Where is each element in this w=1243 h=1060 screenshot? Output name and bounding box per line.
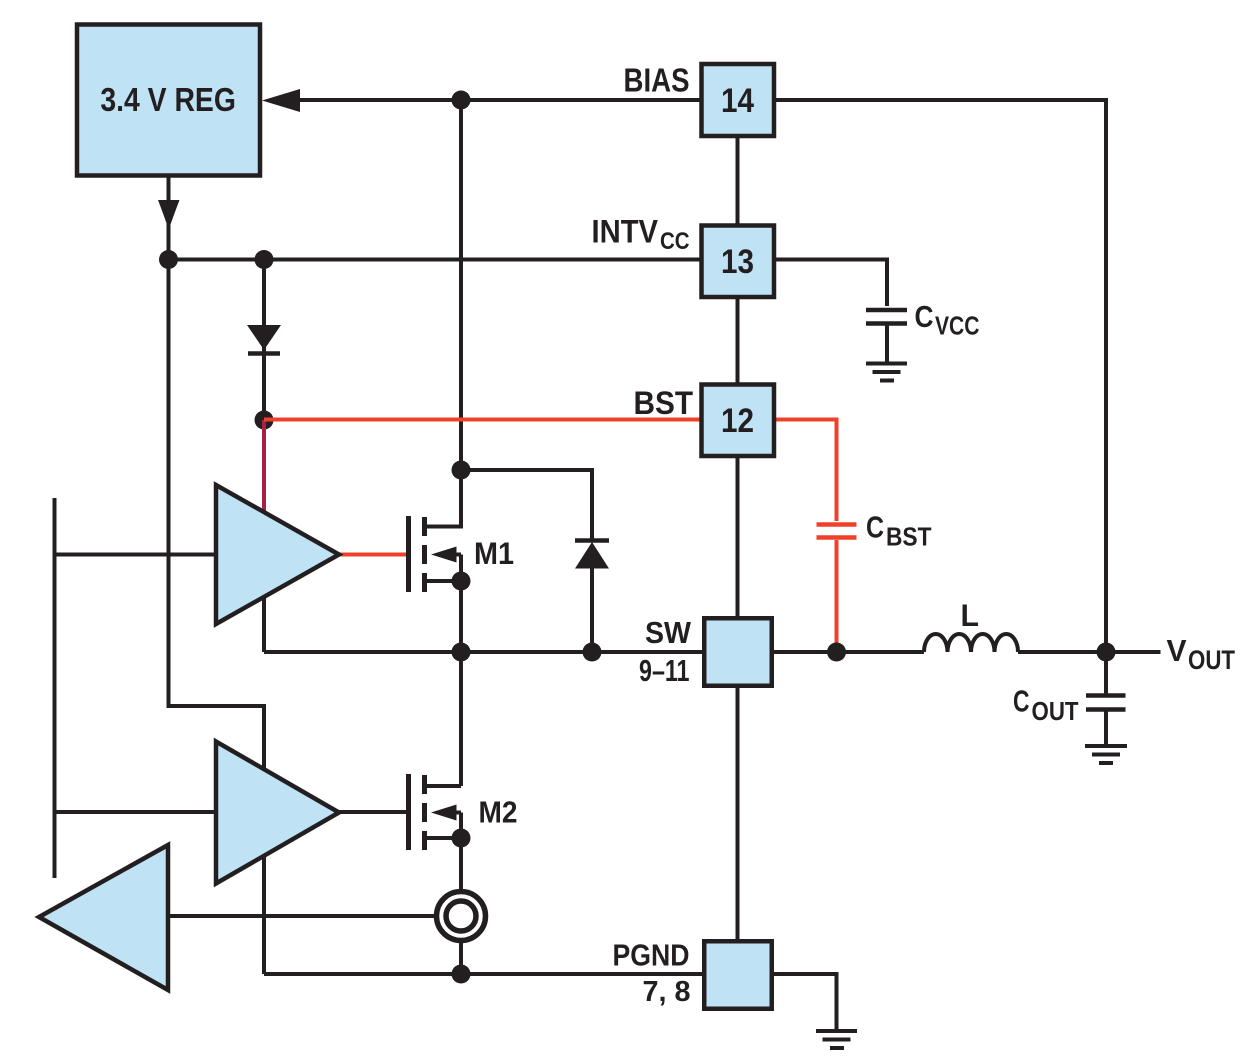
- wire M2 gate from driver T2: [339, 810, 409, 814]
- pin box PGND: [704, 941, 772, 1009]
- svg-text:M1: M1: [474, 535, 514, 571]
- wire SW rail down to M2 drain: [459, 652, 463, 786]
- transistor M1 source lead: [425, 579, 462, 583]
- svg-text:VCC: VCC: [935, 313, 980, 341]
- node dot PGND at sense: [452, 965, 471, 984]
- node dot M1 source: [452, 572, 471, 591]
- wire M1 drain loop to body diode: [461, 470, 592, 539]
- arrowhead downward below 3.4V REG: [158, 200, 180, 230]
- wire sense circle bottom to PGND line: [459, 941, 463, 974]
- wire COUT to ground: [1104, 712, 1108, 745]
- svg-text:INTV: INTV: [592, 214, 659, 250]
- transistor M2 gate bar: [406, 774, 411, 850]
- pin box 12: [702, 385, 775, 457]
- ground symbol PGND: [816, 1029, 857, 1033]
- body diode D1 of M1: [575, 538, 609, 543]
- arrowhead into 3.4 V REG box: [262, 89, 300, 112]
- wire red BST horizontal to pin 12: [264, 418, 701, 422]
- svg-text:7, 8: 7, 8: [643, 976, 691, 1008]
- capacitor CBST plates (red): [817, 522, 857, 527]
- svg-text:C: C: [915, 299, 934, 334]
- wire M1 source to SW line: [459, 581, 463, 652]
- wire red CBST bottom to SW node: [835, 540, 839, 652]
- transistor M2 source lead: [425, 836, 462, 840]
- svg-text:M2: M2: [479, 795, 518, 830]
- svg-text:3.4 V REG: 3.4 V REG: [100, 81, 236, 118]
- svg-text:13: 13: [721, 243, 754, 281]
- node dot VOUT: [1097, 643, 1116, 662]
- svg-text:OUT: OUT: [1188, 645, 1235, 675]
- pin box 14: [702, 64, 775, 136]
- wire inductor to VOUT: [1018, 650, 1161, 654]
- wire input to driver T1: [55, 553, 217, 557]
- wire sense circle left to T3: [168, 914, 436, 918]
- wire from driver T1 bottom to SW line: [262, 590, 266, 652]
- wire red right of pin 12 to CBST: [774, 420, 837, 522]
- node dot at diode branch on INTVCC: [255, 250, 274, 269]
- wire stub below 3.4V REG box: [167, 176, 171, 260]
- svg-text:BST: BST: [886, 522, 932, 552]
- node dot SW at body diode: [583, 643, 602, 662]
- node dot M1 drain rail: [452, 461, 471, 480]
- driver triangle T3 (left pointing): [39, 845, 168, 990]
- svg-text:9–11: 9–11: [639, 654, 690, 688]
- capacitor CVCC plates: [866, 308, 907, 313]
- current sense double circle: [437, 892, 486, 941]
- left bus vertical: [53, 498, 57, 878]
- wire SW horizontal left of SW box: [264, 650, 702, 654]
- wire vertical left rail from INTVCC node down to jog: [169, 260, 265, 975]
- driver triangle T1 (gate driver M1): [216, 485, 339, 624]
- transistor M1 drain lead: [425, 470, 462, 527]
- node dot INTVCC left: [159, 250, 178, 269]
- wire CVCC to ground: [885, 326, 889, 363]
- pin connector stub SW-PGND: [736, 688, 740, 939]
- transistor M1 gate bar: [406, 516, 411, 592]
- wire INTVCC horizontal to pin 13: [169, 258, 702, 262]
- wire SW right of box to inductor: [774, 650, 924, 654]
- pin connector stub 13-12: [736, 297, 740, 384]
- inductor L: [924, 634, 1018, 652]
- transistor M2 body arrow: [431, 805, 457, 821]
- svg-text:V: V: [1167, 633, 1187, 668]
- ground symbol COUT: [1085, 744, 1127, 748]
- svg-text:BIAS: BIAS: [624, 61, 690, 98]
- wire red M1 gate drive from T1 apex: [339, 553, 407, 557]
- node dot BST left: [255, 411, 274, 430]
- svg-text:CC: CC: [660, 228, 690, 255]
- wire PGND horizontal to PGND box: [264, 972, 702, 976]
- wire BIAS horizontal from 3.4V REG to pin 14 and right loop: [290, 98, 701, 102]
- svg-text:C: C: [1013, 684, 1030, 719]
- transistor M2 drain lead: [425, 784, 462, 788]
- wire BIAS right of pin 14 to right vertical: [774, 100, 1106, 652]
- node junction dot at BIAS/top of M1 drain rail: [452, 91, 471, 110]
- wire PGND right of box to ground: [774, 974, 837, 1029]
- diode D2 (INTVCC to BST) pointing down: [247, 325, 281, 350]
- pin connector stub 14-13: [736, 136, 740, 225]
- wire crimson from BST node to driver T1: [262, 420, 266, 516]
- wire vertical rail x=461 from BIAS dot to M1 drain node: [459, 100, 463, 470]
- svg-text:SW: SW: [645, 615, 692, 650]
- svg-text:OUT: OUT: [1032, 696, 1079, 726]
- transistor M1 channel segments: [422, 517, 427, 536]
- pin connector stub 12-SW: [736, 456, 740, 616]
- wire M2 source to current sense circle: [459, 838, 463, 891]
- pin box SW: [704, 618, 772, 686]
- block 3.4 V REG: [77, 25, 260, 176]
- svg-text:14: 14: [721, 82, 754, 120]
- wire input to driver T2: [55, 810, 217, 814]
- svg-text:BST: BST: [634, 385, 694, 421]
- svg-text:12: 12: [721, 402, 754, 440]
- wire diode branch vertical from INTVCC node: [262, 260, 266, 421]
- driver triangle T2 (gate driver M2): [216, 742, 339, 884]
- node dot SW at M1 rail: [452, 643, 471, 662]
- node dot M2 source: [452, 829, 471, 848]
- ground symbol CVCC: [866, 362, 907, 366]
- pin box 13: [702, 226, 775, 298]
- wire INTVCC right of pin 13 to CVCC: [774, 260, 887, 307]
- node dot SW at CBST: [827, 643, 846, 662]
- svg-text:L: L: [961, 597, 980, 633]
- transistor M1 body arrow: [431, 547, 457, 563]
- capacitor COUT plates: [1086, 693, 1126, 698]
- svg-text:PGND: PGND: [613, 938, 690, 973]
- wire VOUT down to COUT: [1104, 652, 1108, 694]
- transistor M2 channel segments: [422, 775, 427, 794]
- svg-text:C: C: [866, 510, 884, 545]
